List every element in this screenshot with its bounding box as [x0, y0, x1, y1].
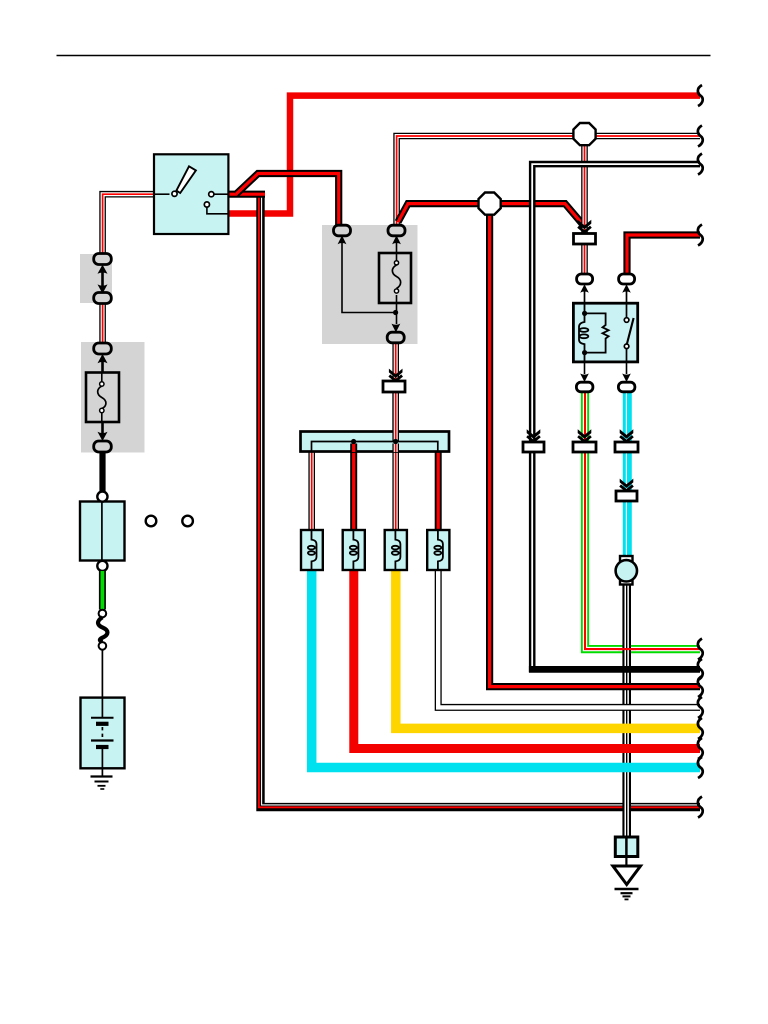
wire: thick red ignition feed: [228, 96, 700, 214]
wire: red splice net from node A down to bracket: [398, 204, 700, 687]
fusible link FL outline: [86, 373, 119, 423]
terminal circle bottom: [97, 561, 107, 571]
body ground triangle: [613, 866, 641, 885]
splice node B octagon: [573, 123, 595, 145]
fuel pump motor circle: [616, 560, 637, 581]
wire: white-red from fuse box right connector up and right to bracket: [397, 136, 700, 226]
arrow up into oval: [98, 354, 108, 363]
shaded block B3 (fuse box shading center): [322, 225, 418, 344]
connector oval relay coil top: [577, 274, 593, 284]
fuse box junction dot: [393, 310, 398, 315]
wire: white-red relay coil feed vertical: [581, 140, 588, 275]
fuel pump terminal tab top: [620, 556, 633, 562]
fuse F1 element: [392, 240, 400, 324]
ignition switch pivot lead: [154, 193, 170, 195]
wire: black-red pair from ignition down to bottom bracket: [259, 194, 700, 807]
fuse F1 outline: [379, 253, 411, 303]
wire: white-red bus feed entering box: [392, 393, 399, 442]
wire: light blue injector 1 output: [312, 570, 700, 768]
wire: red feed bus to injector 4: [435, 452, 442, 531]
wire: red injector 2 output: [354, 570, 700, 749]
continuation squiggle brackets at right edge: [698, 85, 703, 818]
relay switch: [624, 304, 633, 362]
wire stubs inside bus box: [354, 444, 396, 453]
bus bar internal line: [312, 442, 438, 452]
junction block (ammeter) box: [80, 502, 125, 561]
connector oval relay switch top: [619, 274, 635, 284]
connector rect on green wire: [573, 442, 596, 452]
arrow up into relay switch oval: [622, 284, 631, 293]
connector oval fuse box left: [334, 225, 351, 236]
battery box: [81, 698, 125, 769]
arrow down out of fuse box: [392, 324, 401, 333]
wire: white-red feed through bus to injector 3: [392, 342, 399, 530]
wire: shielded pump lead down to ground: [622, 584, 631, 838]
fuel pump terminal tab bottom: [620, 579, 633, 585]
relay resistor: [585, 313, 609, 352]
flexible lead terminal circle top: [99, 610, 107, 618]
connector rect on pump wire: [616, 491, 637, 501]
inline connector chevrons above relay coil connector: [578, 220, 592, 232]
inline connector chevrons on black wire: [527, 429, 541, 441]
wire: red from ignition to fuse box left connector: [228, 174, 338, 227]
inline connector chevrons below fuse box: [389, 369, 403, 381]
connector oval relay switch bottom: [618, 382, 635, 392]
arrow down out of fusible link: [101, 422, 104, 436]
wire: thin lead into battery: [101, 650, 103, 717]
wire: heavy black battery cable: [99, 452, 105, 492]
battery ground symbol: [91, 777, 113, 790]
wire: black heavy wire top and side: [532, 164, 700, 672]
double arrow between C1 ovals: [98, 265, 108, 294]
spare terminal circle 1: [146, 516, 157, 527]
connector rect on black wire: [523, 442, 544, 452]
connector rect on light blue wire: [615, 442, 638, 452]
wire: red relay switch feed from right bracket: [627, 235, 700, 276]
relay junction dots: [582, 311, 587, 316]
relay box: [573, 303, 637, 362]
connector oval relay coil bottom: [576, 382, 593, 392]
connector rect relay coil feed: [574, 234, 596, 245]
wire: lead to ground point: [625, 857, 627, 867]
inline connector chevrons on light blue wire: [620, 429, 634, 441]
wire: green battery lead: [99, 571, 106, 610]
arrow up into fuse box left connector: [338, 235, 347, 244]
fusible link element: [98, 373, 106, 423]
ignition contact ST: [207, 207, 229, 214]
terminal circle top: [97, 492, 107, 502]
injector coils: [308, 530, 443, 570]
ignition switch box SW1: [154, 154, 228, 234]
connector oval fuse box bottom: [387, 332, 404, 343]
connector oval above fusible link: [94, 343, 112, 354]
arrow up into fuse box right connector: [392, 235, 401, 244]
wire: white-red feed bus to injector 1: [308, 452, 315, 531]
green wire red core over crossing: [618, 648, 636, 650]
wire: green-red from relay to bracket: [585, 390, 700, 649]
flexible battery lead squiggle: [98, 617, 107, 642]
top border line: [57, 55, 711, 57]
battery plates: [91, 698, 114, 777]
connector oval fuse box right: [388, 225, 405, 236]
connector oval pair upper left (C1): [94, 254, 112, 265]
wire: white-red from ignition to left column: [103, 194, 154, 343]
injector 2 box: [343, 530, 365, 570]
inline connector chevrons on green wire: [578, 429, 592, 441]
flexible lead terminal circle bottom: [99, 642, 107, 650]
splice node A octagon: [479, 193, 501, 215]
wire: white injector 4 output: [438, 570, 700, 707]
connector rect below fuse box: [383, 381, 405, 392]
ignition switch lever: [176, 166, 196, 193]
relay outputs down: [585, 362, 627, 374]
injector 1 box: [301, 530, 323, 570]
ignition contact IG: [214, 193, 228, 195]
inline connector chevrons on pump wire: [620, 479, 634, 491]
relay coil loops: [580, 328, 589, 338]
ground connector block: [615, 837, 638, 857]
wire: black heavy bottom horizontal: [529, 666, 700, 673]
connector oval below fusible link: [94, 441, 112, 452]
shaded block B2 (fusible link shading): [81, 342, 145, 453]
injector 4 box: [427, 530, 449, 570]
arrow down out of relay switch: [622, 374, 631, 383]
wire: light blue from relay switch to fuel pump: [622, 391, 632, 557]
arrow up into relay coil oval: [580, 284, 589, 293]
body ground hatching: [615, 889, 639, 899]
wire: red feed bus to injector 2: [350, 444, 357, 530]
ignition switch pivot: [172, 191, 177, 196]
injector 3 box: [385, 530, 407, 570]
junction bus bar box: [301, 432, 450, 452]
fuse box internal wire from left connector: [342, 243, 396, 313]
wire: yellow injector 3 output: [396, 570, 700, 728]
spare terminal circle 2: [182, 516, 193, 527]
bus junction dot 1: [351, 439, 356, 444]
bus junction dot 2: [393, 439, 398, 444]
relay coil line: [579, 304, 585, 363]
junction block divider line: [101, 502, 103, 561]
shaded block B1 (connector shading upper left): [80, 254, 112, 303]
arrow down out of relay coil: [580, 374, 589, 383]
